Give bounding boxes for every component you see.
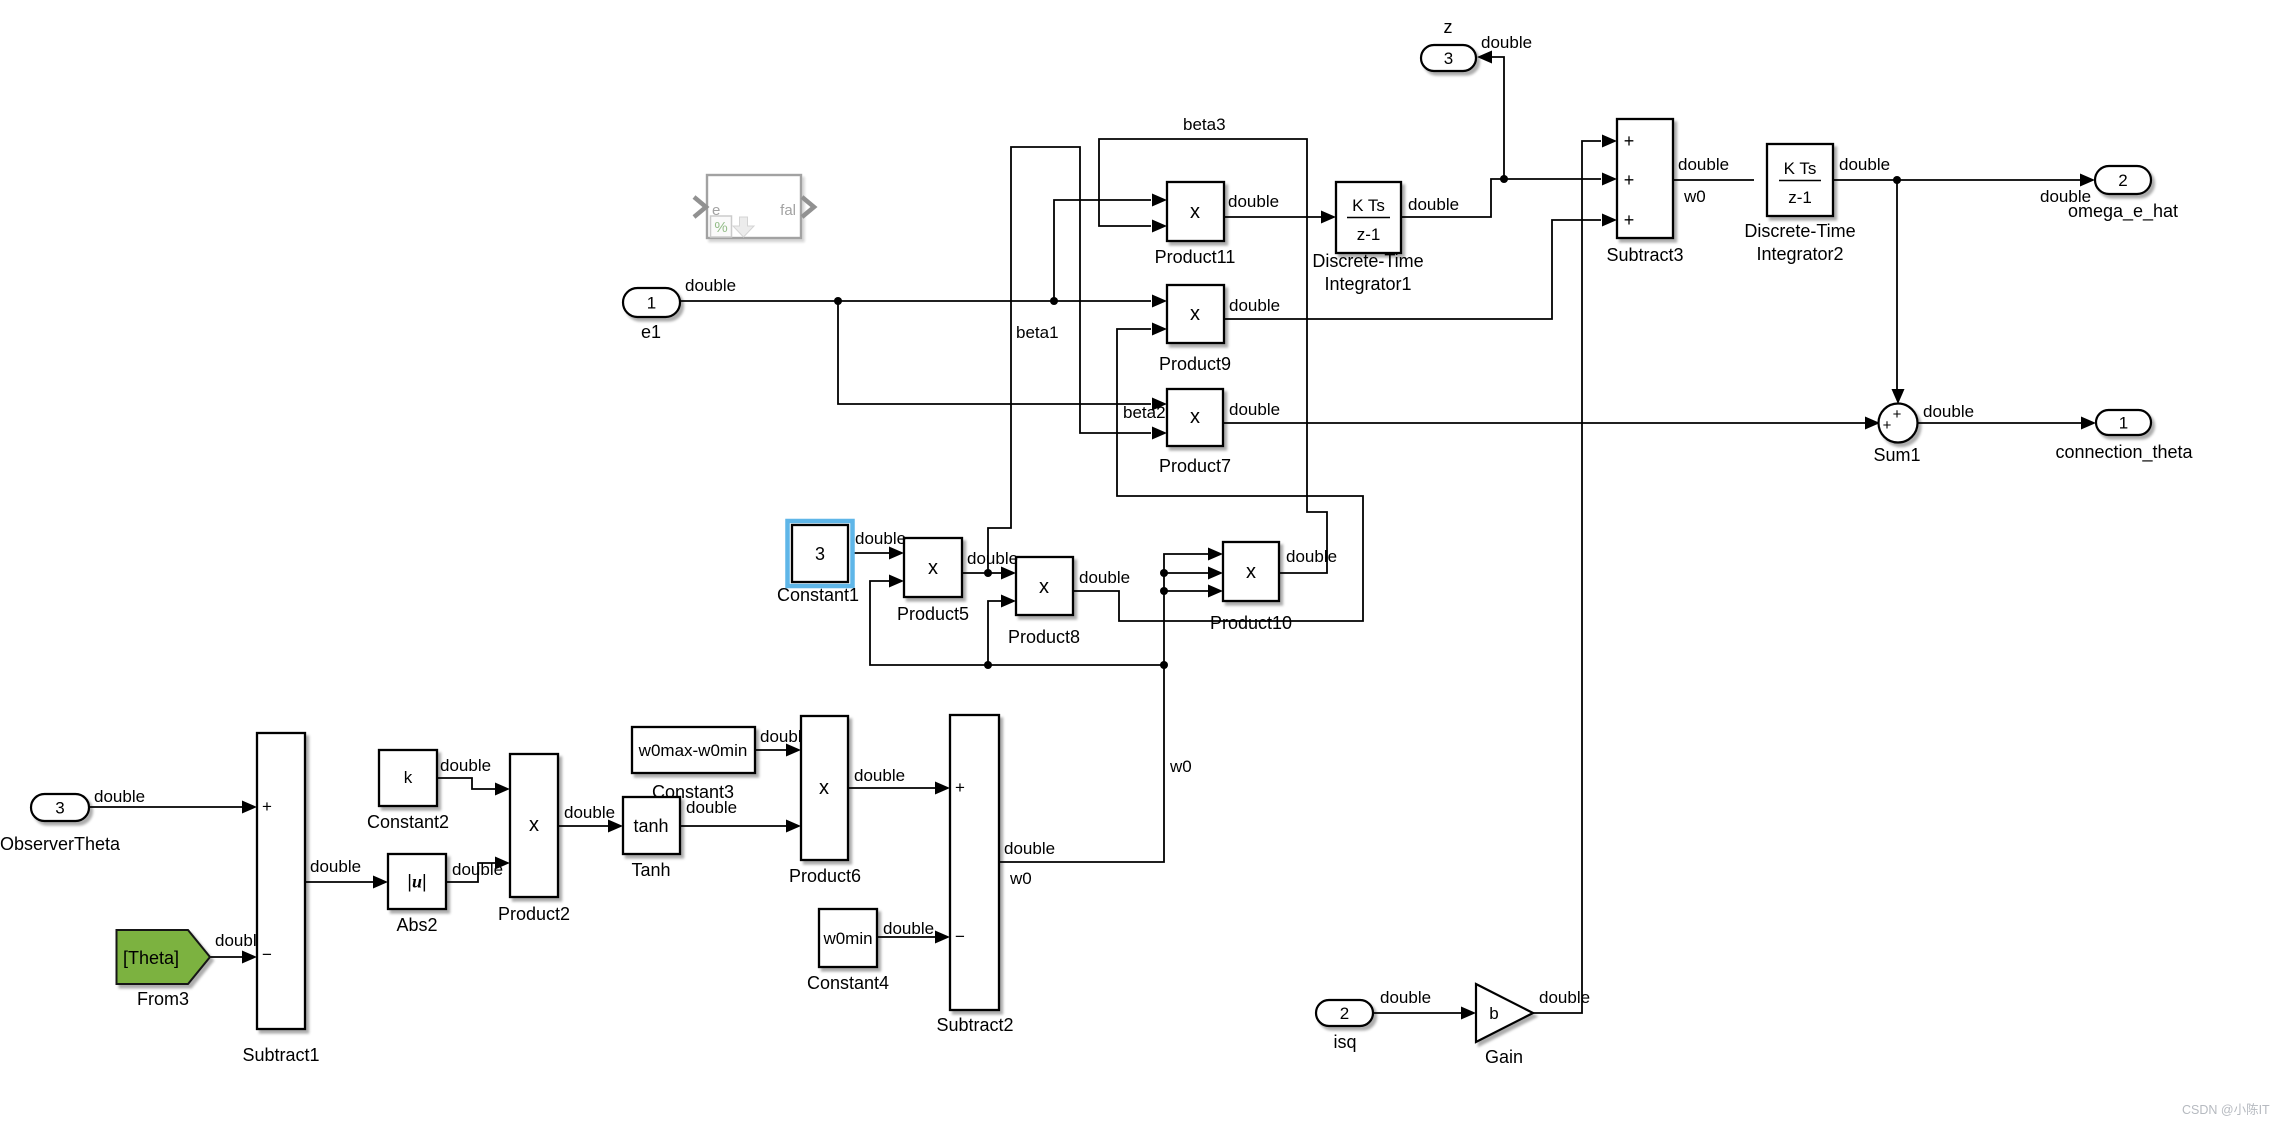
svg-text:w0: w0 (1683, 187, 1706, 206)
arrowhead into Product10 in3 (1208, 585, 1223, 598)
svg-text:Discrete-Time: Discrete-Time (1744, 221, 1855, 241)
gain block Gain (b) (1476, 984, 1533, 1042)
wire junction dot w0 in3 (1160, 587, 1168, 595)
block Product8 (1016, 557, 1073, 615)
svg-text:double: double (1539, 988, 1590, 1007)
svg-text:Product10: Product10 (1210, 613, 1292, 633)
arrowhead into Product10 in2 (1208, 567, 1223, 580)
svg-text:From3: From3 (137, 989, 189, 1009)
svg-text:omega_e_hat: omega_e_hat (2068, 201, 2178, 222)
arrowhead into Subtract3 in3 (1602, 214, 1617, 227)
svg-text:z: z (1444, 17, 1453, 37)
arrowhead into Subtract3 in1 (1602, 135, 1617, 148)
arrowhead into Product10 in1 (1208, 548, 1223, 561)
svg-text:double: double (440, 756, 491, 775)
wire beta1 branch up to Product7 in2 (988, 147, 1151, 573)
svg-text:3: 3 (55, 799, 64, 818)
arrowhead into Product2 in1 (495, 783, 510, 796)
block Product6 (801, 716, 848, 860)
wire e1 to Product9 in1 (680, 300, 1151, 302)
svg-text:Tanh: Tanh (631, 860, 670, 880)
svg-text:x: x (819, 777, 829, 799)
svg-text:Product8: Product8 (1008, 627, 1080, 647)
svg-text:2: 2 (1340, 1004, 1349, 1023)
disabled subsystem fal (ghost block) (694, 175, 814, 238)
svg-text:z-1: z-1 (1788, 188, 1812, 207)
svg-text:1: 1 (647, 294, 656, 313)
block Product10 (1223, 542, 1279, 601)
block Product2 (510, 754, 558, 897)
svg-text:x: x (1190, 406, 1200, 428)
wire w0 branch to Product10 in3 (1164, 590, 1210, 592)
svg-text:w0max-w0min: w0max-w0min (638, 741, 748, 760)
arrowhead into Product6 in1 (786, 744, 801, 757)
svg-text:double: double (883, 919, 934, 938)
svg-text:+: + (1624, 170, 1635, 190)
wire Product7 out to Sum1 (1224, 422, 1866, 424)
svg-text:double: double (1923, 402, 1974, 421)
svg-text:double: double (855, 529, 906, 548)
wire isq inport to Gain (1373, 1012, 1463, 1014)
wire junction dot w0 in2 (1160, 569, 1168, 577)
svg-text:beta3: beta3 (1183, 115, 1226, 134)
block Subtract2 (950, 715, 999, 1010)
svg-text:connection_theta: connection_theta (2055, 442, 2193, 463)
arrowhead into Product8 in2 (1001, 595, 1016, 608)
arrowhead into connection_theta (2081, 417, 2096, 430)
wire Constant2 out to Product2 in1 (437, 778, 497, 789)
wire Abs2 out to Product2 in2 (446, 863, 497, 882)
block Constant3 (w0max-w0min) (632, 727, 755, 773)
arrowhead into Product6 in2 (786, 820, 801, 833)
arrowhead into Sum1 top (1892, 389, 1905, 404)
block Product7 (1167, 389, 1223, 446)
svg-text:isq: isq (1333, 1032, 1356, 1052)
wire From3 to Subtract1 minus (209, 956, 243, 958)
svg-text:double: double (1678, 155, 1729, 174)
wire junction dot w0 bottom run (1160, 661, 1168, 669)
block Subtract1 (257, 733, 305, 1029)
wire Product6 out to Subtract2 plus (848, 787, 938, 789)
svg-text:b: b (1489, 1004, 1498, 1023)
wire junction dot w0 to Product8 (984, 661, 992, 669)
wire Tanh out to Product6 in2 (680, 825, 789, 827)
block Tanh (623, 797, 680, 854)
svg-text:Subtract1: Subtract1 (242, 1045, 319, 1065)
svg-text:+: + (262, 797, 272, 816)
svg-text:K Ts: K Ts (1784, 159, 1817, 178)
arrowhead into Product11 in1 (1152, 194, 1167, 207)
svg-text:fal: fal (780, 202, 796, 219)
wire e1 branch down to Product7 in1 (beta2 run) (838, 301, 1151, 404)
svg-text:Integrator2: Integrator2 (1756, 244, 1843, 264)
svg-text:Integrator1: Integrator1 (1324, 274, 1411, 294)
inport 1 e1 (623, 288, 680, 317)
wire Product9 out to Subtract3 in3 (1224, 220, 1601, 319)
svg-text:3: 3 (815, 544, 825, 564)
svg-text:double: double (1229, 296, 1280, 315)
svg-text:Gain: Gain (1485, 1047, 1523, 1067)
wire Product2 out to Tanh (558, 825, 610, 827)
from tag From3 [Theta] (117, 930, 211, 984)
block Product5 (904, 538, 962, 597)
svg-text:|u|: |u| (407, 872, 426, 892)
wire Gain out up to Subtract3 in1 (1533, 141, 1601, 1013)
svg-text:double: double (1079, 568, 1130, 587)
svg-text:Constant4: Constant4 (807, 973, 889, 993)
wire Sum1 out to connection_theta outport (1918, 422, 2083, 424)
svg-text:Product2: Product2 (498, 904, 570, 924)
svg-text:e: e (712, 202, 720, 219)
svg-text:Abs2: Abs2 (396, 915, 437, 935)
svg-text:Product9: Product9 (1159, 354, 1231, 374)
svg-text:z-1: z-1 (1357, 225, 1381, 244)
svg-text:Discrete-Time: Discrete-Time (1312, 251, 1423, 271)
svg-text:3: 3 (1444, 49, 1453, 68)
svg-text:ObserverTheta: ObserverTheta (0, 834, 121, 854)
svg-text:Subtract2: Subtract2 (936, 1015, 1013, 1035)
arrowhead into Subtract2 plus (935, 782, 950, 795)
svg-text:double: double (1380, 988, 1431, 1007)
svg-text:+: + (1624, 131, 1635, 151)
svg-text:double: double (310, 857, 361, 876)
block Constant1 (selected, value 3) (788, 521, 853, 586)
inport 2 isq (1316, 1000, 1373, 1026)
svg-text:x: x (1190, 201, 1200, 223)
wire Product11 out to Discrete-Time Integrator1 (1224, 216, 1322, 218)
svg-text:x: x (928, 557, 938, 579)
wire beta3 net: Product10 out to Product11 in2 (1099, 139, 1327, 573)
svg-text:+: + (1883, 417, 1892, 434)
svg-text:double: double (1228, 192, 1279, 211)
wire ObserverTheta inport to Subtract1 plus (89, 806, 243, 808)
wire Constant3 out to Product6 in1 (755, 749, 789, 751)
arrowhead into Product11 in2 (1152, 220, 1167, 233)
wire Constant1 out to Product5 in1 (853, 552, 889, 554)
wire junction dot e1 branch (834, 297, 842, 305)
svg-text:double: double (1004, 839, 1055, 858)
svg-text:1: 1 (2119, 414, 2128, 433)
svg-text:Constant3: Constant3 (652, 782, 734, 802)
wire junction dot e1 to Product11 (1050, 297, 1058, 305)
wire Subtract3 out to Integrator2 (1673, 179, 1754, 181)
svg-text:−: − (955, 927, 965, 946)
svg-text:double: double (1229, 400, 1280, 419)
svg-text:double: double (1286, 547, 1337, 566)
wire Product8 out to Product9 in2 (1073, 329, 1363, 621)
wire branch up to z outport (1490, 57, 1504, 179)
svg-text:double: double (685, 276, 736, 295)
block Constant2 (k) (379, 750, 437, 806)
svg-text:+: + (955, 778, 965, 797)
inport 3 ObserverTheta (31, 794, 89, 821)
svg-text:double: double (94, 787, 145, 806)
wire e1 branch up to Product11 in1 (1054, 200, 1151, 301)
arrowhead into Product9 in2 (1152, 323, 1167, 336)
arrowhead into omega_e_hat (2080, 174, 2095, 187)
svg-text:double: double (854, 766, 905, 785)
wire w0 branch up to Product8 in2 (988, 601, 1004, 665)
svg-text:%: % (714, 219, 727, 236)
arrowhead into Product5 in2 (889, 575, 904, 588)
arrowhead into Tanh (608, 820, 623, 833)
svg-text:Product7: Product7 (1159, 456, 1231, 476)
outport 3 z (1421, 45, 1476, 71)
wire junction dot beta1 branch (984, 569, 992, 577)
wire Constant4 w0min out to Subtract2 minus (877, 936, 938, 938)
block Subtract3 (1617, 119, 1673, 238)
svg-text:w0min: w0min (822, 929, 872, 948)
arrowhead into Subtract2 minus (935, 931, 950, 944)
arrowhead into Product7 in1 (1152, 398, 1167, 411)
svg-text:tanh: tanh (633, 816, 668, 836)
block Abs2 (388, 854, 446, 909)
svg-text:Product6: Product6 (789, 866, 861, 886)
svg-text:+: + (1893, 406, 1902, 423)
wire Integrator2 out to omega_e_hat outport (1833, 179, 2082, 181)
wire Integrator1 out to Subtract3 in2 (1401, 179, 1601, 217)
svg-text:w0: w0 (1169, 757, 1192, 776)
wire branch down to Sum1 top input (1896, 180, 1898, 392)
svg-text:double: double (452, 860, 503, 879)
svg-text:double: double (1481, 33, 1532, 52)
svg-text:Constant2: Constant2 (367, 812, 449, 832)
arrowhead into Subtract1 minus (242, 951, 257, 964)
wire w0 branch to Product10 in2 (1164, 572, 1210, 574)
svg-text:w0: w0 (1009, 869, 1032, 888)
wire w0 branch left to Product5 in2 (870, 581, 1164, 665)
svg-text:Constant1: Constant1 (777, 585, 859, 605)
arrowhead into Product8 in1 (1001, 567, 1016, 580)
svg-text:Sum1: Sum1 (1873, 445, 1920, 465)
arrowhead into Product2 in2 (495, 857, 510, 870)
svg-text:x: x (1246, 561, 1256, 583)
svg-text:double: double (1839, 155, 1890, 174)
svg-text:double: double (967, 549, 1018, 568)
arrowhead into Product7 in2 (1152, 427, 1167, 440)
svg-text:[Theta]: [Theta] (123, 948, 179, 968)
svg-text:double: double (564, 803, 615, 822)
wire junction dot z branch (1500, 175, 1508, 183)
arrowhead into Subtract1 plus (242, 801, 257, 814)
wire junction dot omega branch (1893, 176, 1901, 184)
arrowhead into Gain (1461, 1007, 1476, 1020)
block Product11 (1167, 182, 1224, 241)
arrowhead into Sum1 left (1865, 417, 1880, 430)
wire beta1 net: Product5 out to Product8 in1 (962, 572, 1004, 574)
svg-text:CSDN @小陈IT: CSDN @小陈IT (2182, 1102, 2270, 1117)
svg-text:−: − (262, 945, 272, 964)
outport 2 omega_e_hat (2095, 166, 2151, 194)
block Product9 (1167, 285, 1224, 343)
arrowhead into Product5 in1 (889, 547, 904, 560)
svg-text:x: x (529, 814, 539, 836)
svg-text:Subtract3: Subtract3 (1606, 245, 1683, 265)
outport 1 connection_theta (2096, 410, 2151, 435)
svg-text:k: k (404, 768, 413, 787)
svg-text:beta1: beta1 (1016, 323, 1059, 342)
svg-text:2: 2 (2118, 171, 2127, 190)
block Discrete-Time Integrator1 (1336, 182, 1401, 253)
arrowhead into Subtract3 in2 (1602, 173, 1617, 186)
arrowhead into z outport (1477, 51, 1492, 64)
wire Subtract1 out to Abs2 (305, 881, 374, 883)
svg-text:x: x (1190, 303, 1200, 325)
arrowhead into Product9 in1 (1152, 295, 1167, 308)
svg-text:Product11: Product11 (1155, 247, 1236, 267)
svg-text:+: + (1624, 210, 1635, 230)
svg-text:e1: e1 (641, 322, 661, 342)
sum block Sum1 (1879, 404, 1918, 443)
arrowhead into Abs2 (373, 876, 388, 889)
svg-text:K Ts: K Ts (1352, 196, 1385, 215)
block Discrete-Time Integrator2 (1767, 144, 1833, 216)
wire Subtract2 out w0 riser to Product10 in1 (999, 554, 1210, 862)
svg-text:Product5: Product5 (897, 604, 969, 624)
svg-text:x: x (1039, 576, 1049, 598)
block Constant4 (w0min) (819, 909, 877, 967)
svg-text:double: double (1408, 195, 1459, 214)
arrowhead into Integrator1 (1321, 211, 1336, 224)
